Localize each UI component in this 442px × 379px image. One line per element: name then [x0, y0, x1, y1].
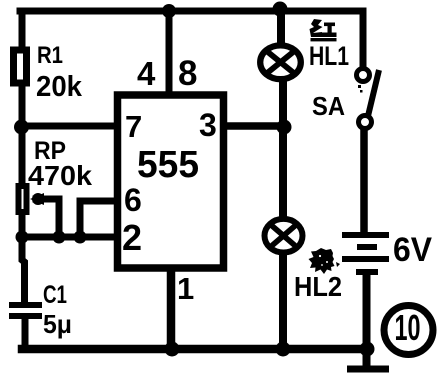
svg-text:4: 4 [137, 55, 156, 92]
svg-text:HL2: HL2 [294, 271, 342, 302]
svg-text:6V: 6V [393, 231, 432, 269]
svg-text:2: 2 [122, 217, 142, 258]
svg-text:C1: C1 [43, 281, 67, 309]
svg-text:555: 555 [137, 144, 199, 186]
svg-text:R1: R1 [37, 42, 63, 69]
svg-text:5μ: 5μ [43, 309, 72, 339]
svg-text:3: 3 [199, 107, 217, 143]
svg-text:HL1: HL1 [309, 41, 349, 71]
svg-text:7: 7 [125, 109, 142, 144]
svg-text:1: 1 [177, 271, 194, 306]
svg-text:20k: 20k [36, 71, 83, 103]
svg-text:10: 10 [395, 307, 421, 348]
svg-text:SA: SA [312, 91, 345, 121]
svg-text:8: 8 [178, 54, 197, 93]
svg-text:6: 6 [124, 182, 142, 218]
svg-text:470k: 470k [28, 160, 92, 191]
